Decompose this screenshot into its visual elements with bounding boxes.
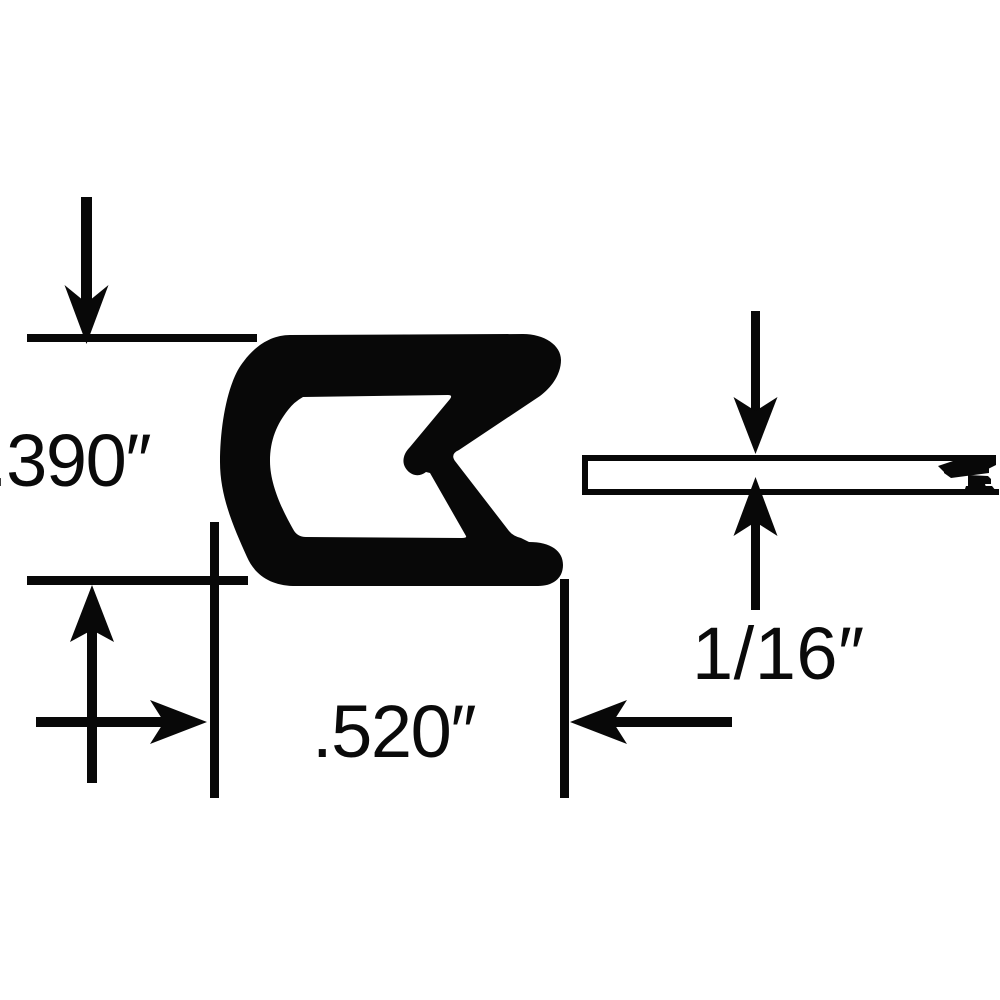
left arrowhead (.520 right)	[570, 700, 627, 744]
right extension vline (.520)	[560, 579, 569, 798]
mid extension line (.390 lower)	[27, 576, 248, 585]
right arrowhead (.520 left)	[150, 700, 207, 744]
down arrowhead (.390)	[65, 285, 109, 344]
panel bar bottom line	[582, 489, 999, 495]
up arrow shaft (.390 lower)	[87, 630, 97, 783]
up arrowhead (.390 lower)	[70, 585, 114, 642]
down arrow shaft (.390 upper)	[81, 197, 92, 305]
left arrow shaft (.520 right)	[613, 717, 732, 727]
panel bar left edge	[582, 455, 588, 495]
up arrowhead (1/16)	[734, 477, 778, 536]
svg-text:.390″: .390″	[0, 419, 150, 502]
svg-text:1/16″: 1/16″	[692, 612, 865, 695]
down arrowhead (1/16)	[734, 397, 778, 454]
right arrow shaft (.520 left)	[36, 717, 164, 727]
panel bar top line	[582, 455, 996, 461]
top extension line (.390 upper)	[27, 334, 257, 342]
left extension vline (.520)	[210, 522, 219, 798]
svg-text:.520″: .520″	[312, 690, 475, 773]
down arrow shaft (1/16 upper)	[751, 311, 760, 413]
up arrow shaft (1/16 lower)	[751, 522, 760, 610]
trim seal profile	[220, 334, 563, 586]
break squiggle	[961, 455, 996, 470]
